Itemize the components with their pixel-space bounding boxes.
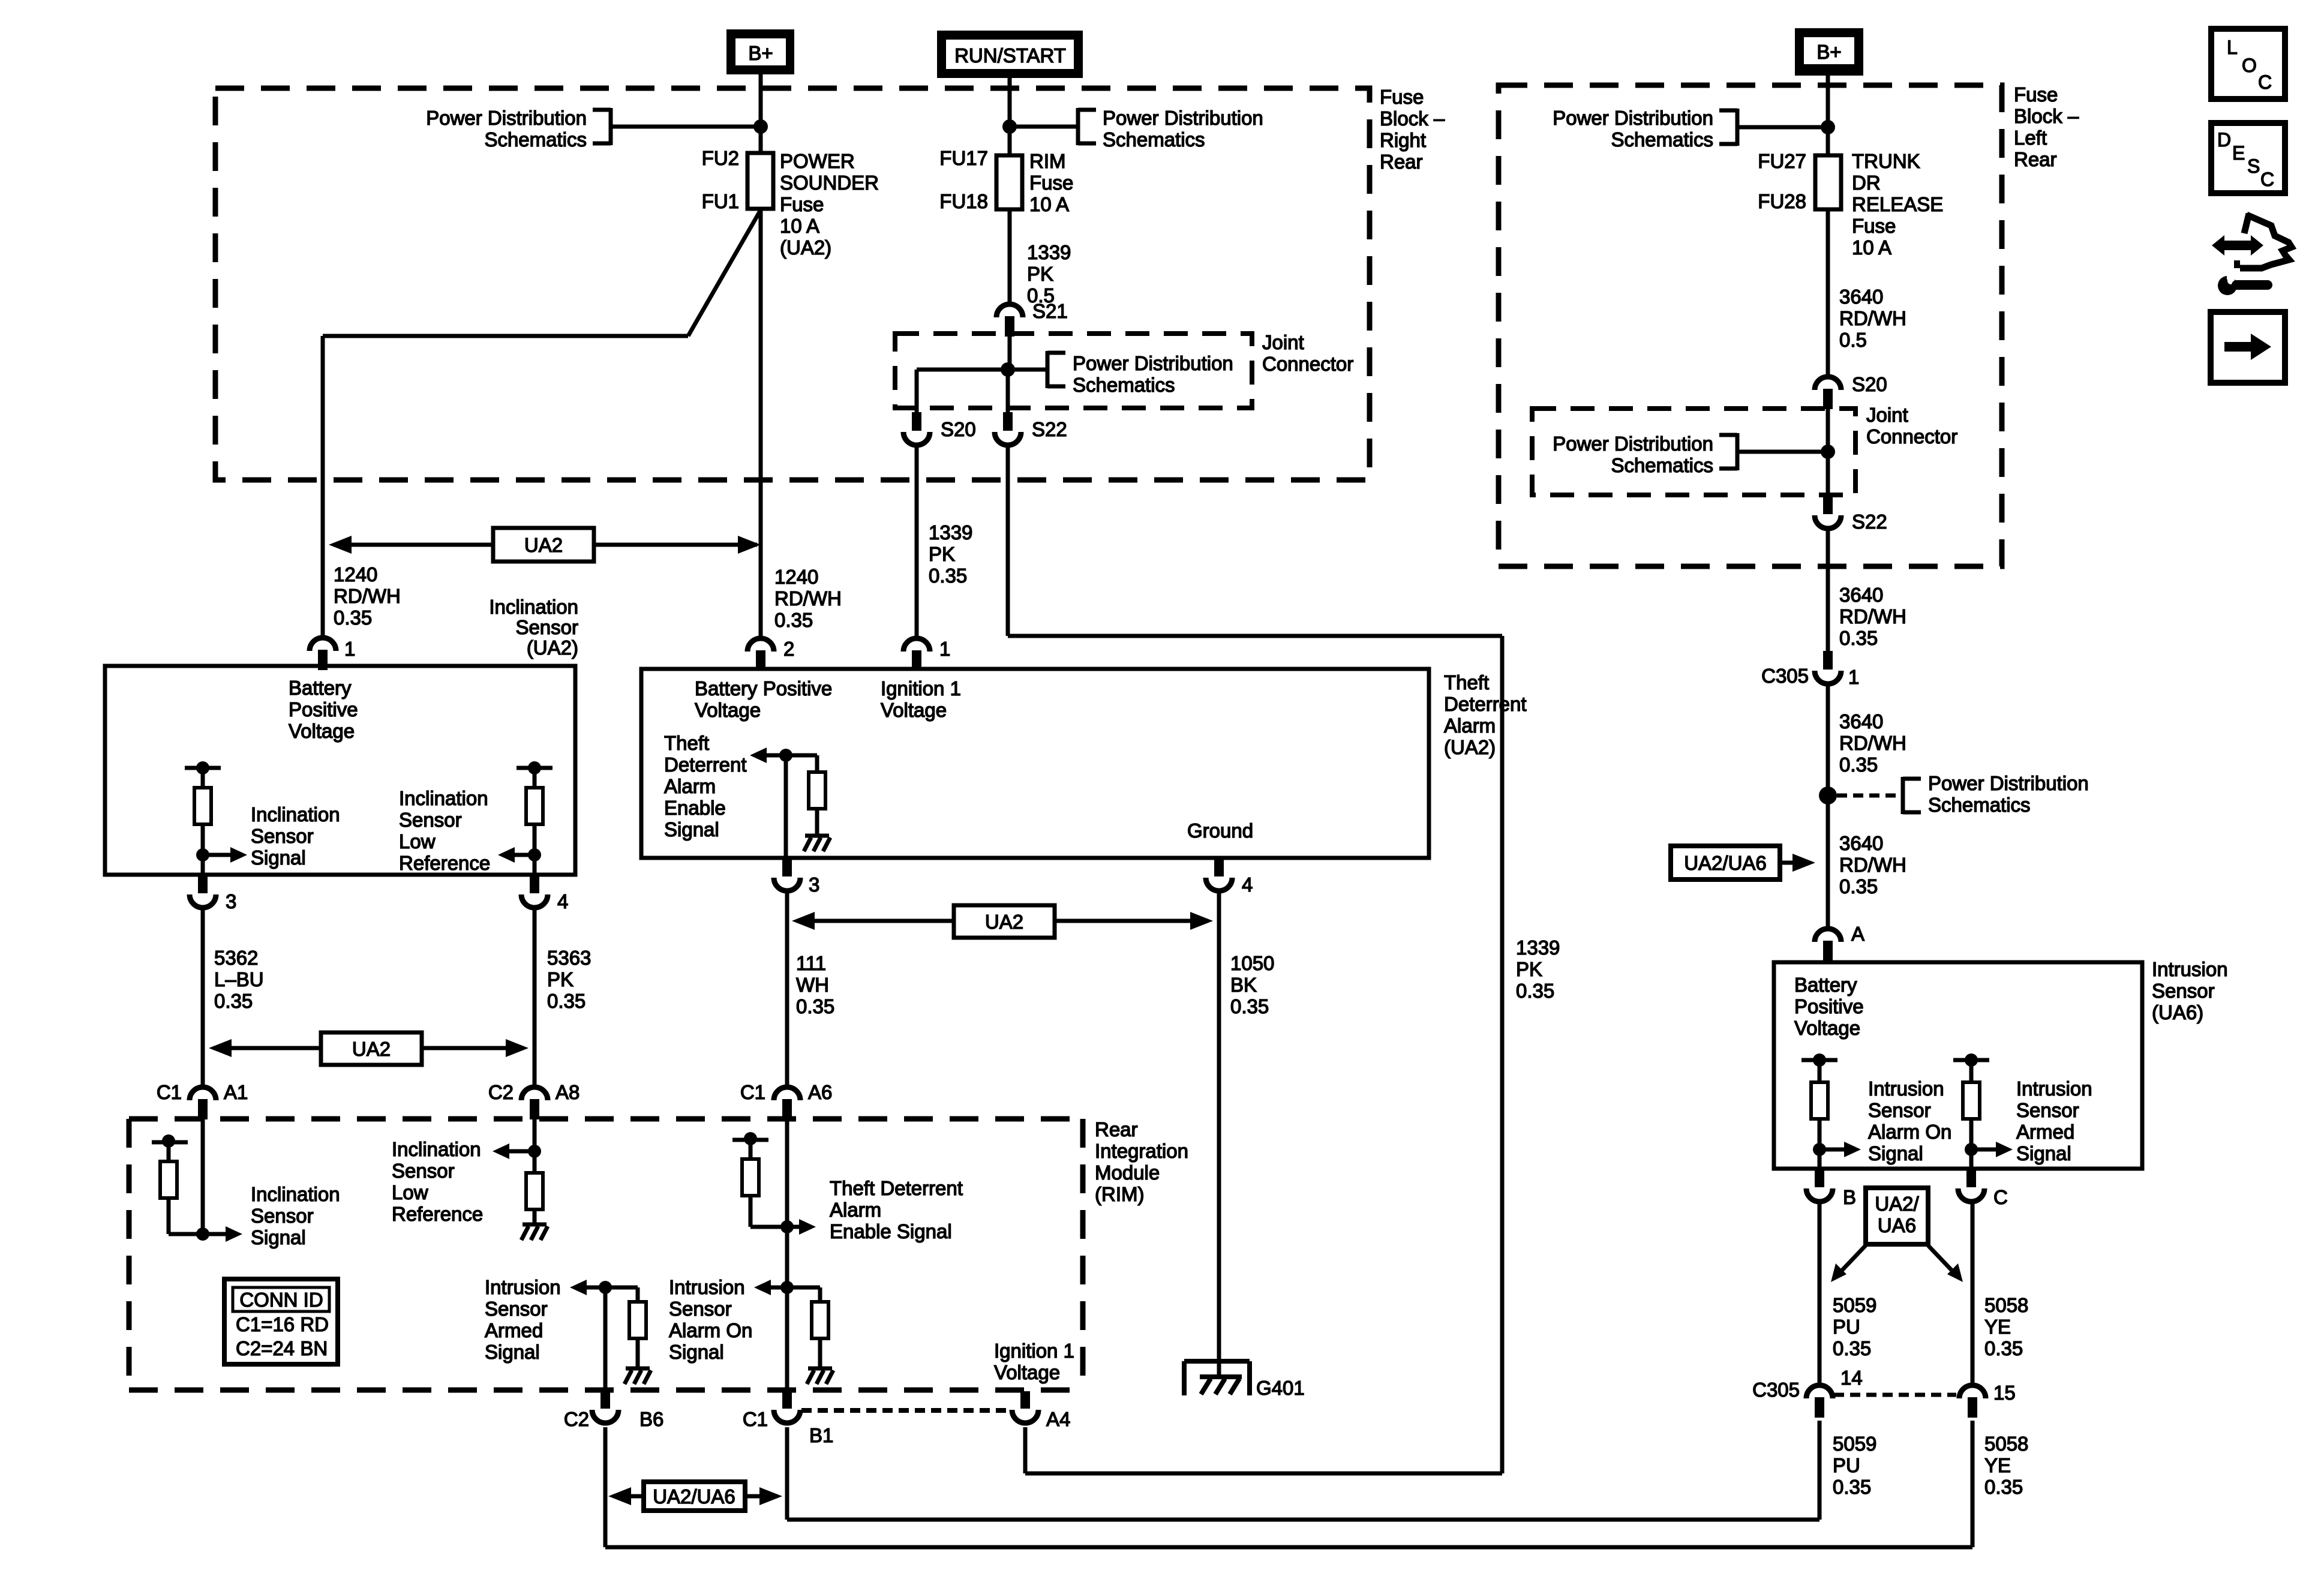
svg-text:YE: YE: [1984, 1316, 2011, 1338]
label FU27: [1758, 150, 1806, 172]
svg-text:Signal: Signal: [2016, 1142, 2071, 1164]
svg-text:YE: YE: [1984, 1454, 2011, 1476]
wire B6 to intrusion sensor C: [605, 1421, 1972, 1547]
svg-text:Ground: Ground: [1187, 819, 1253, 842]
fuse block - left rear dashed box: [1499, 85, 2002, 566]
pin 3 connector (inclination sensor): [190, 875, 216, 908]
label FU1: [702, 190, 739, 212]
label B: [1843, 1186, 1856, 1208]
svg-text:RIM: RIM: [1029, 150, 1066, 172]
arrow intrusion sensor alarm on (sensor): [1819, 1142, 1861, 1157]
arrow inclination sensor low reference: [498, 847, 535, 863]
fuse FU17/FU18 RIM: [996, 155, 1022, 209]
wire S20 into joint connector (right): [1826, 409, 1830, 496]
svg-text:FU17: FU17: [939, 147, 988, 169]
label S20 (right): [1852, 373, 1887, 395]
svg-text:B1: B1: [809, 1424, 833, 1446]
svg-text:B6: B6: [639, 1408, 663, 1430]
harness label UA2/UA6 (below intrusion sensor): [1831, 1188, 1963, 1282]
wire C305 to splice S313: [1826, 684, 1830, 787]
label pin 1 (C305): [1848, 666, 1859, 688]
ground (intrusion armed): [624, 1368, 651, 1384]
label pin 4 (theft): [1242, 873, 1253, 896]
label Joint Connector (right): [1866, 404, 1957, 448]
pin 3 connector (theft deterrent): [774, 858, 800, 891]
svg-text:1: 1: [939, 638, 950, 660]
wire fuse FU18 to splice S21: [1008, 209, 1012, 303]
svg-text:(UA6): (UA6): [2152, 1001, 2203, 1023]
label 5058 YE 0.35 (lower): [1984, 1433, 2028, 1498]
svg-text:5059: 5059: [1833, 1433, 1876, 1455]
wire junction down to S22: [1006, 370, 1010, 413]
svg-text:5362: 5362: [214, 947, 258, 969]
svg-text:0.35: 0.35: [1984, 1337, 2023, 1359]
label C305 (14/15): [1752, 1379, 1800, 1401]
svg-text:C305: C305: [1752, 1379, 1800, 1401]
label Rear Integration Module (RIM): [1095, 1118, 1188, 1205]
svg-text:TRUNK: TRUNK: [1852, 150, 1920, 172]
label 14: [1840, 1367, 1863, 1389]
svg-text:Right: Right: [1380, 129, 1426, 151]
label C305 (pin 1): [1761, 665, 1809, 687]
svg-text:1240: 1240: [334, 563, 377, 586]
svg-text:B+: B+: [1816, 41, 1841, 63]
joint connector dashed box (right): [1532, 409, 1855, 495]
svg-text:Block –: Block –: [2014, 105, 2079, 127]
svg-text:UA2/: UA2/: [1875, 1193, 1919, 1215]
svg-text:Signal: Signal: [251, 846, 306, 869]
svg-text:Sensor: Sensor: [251, 825, 314, 847]
wire theft enable to pin 3: [784, 755, 788, 858]
arrow inclination sensor low reference (RIM): [493, 1143, 535, 1159]
fuse block - right rear dashed box: [215, 88, 1370, 480]
svg-text:0.35: 0.35: [929, 565, 967, 587]
svg-text:Sensor: Sensor: [515, 616, 578, 638]
svg-text:(UA2): (UA2): [1444, 736, 1496, 758]
svg-text:DR: DR: [1852, 172, 1881, 194]
svg-text:Sensor: Sensor: [2152, 980, 2215, 1002]
svg-text:C1: C1: [740, 1081, 765, 1103]
label C2 (A8): [488, 1081, 514, 1103]
joint connector dashed box (left): [895, 334, 1252, 408]
svg-text:Intrusion: Intrusion: [2152, 958, 2228, 980]
wire A1 into RIM: [201, 1119, 205, 1234]
svg-text:Integration: Integration: [1095, 1140, 1188, 1162]
label 3640 RD/WH 0.35 (above C305): [1839, 584, 1906, 649]
connector C1 A1: [190, 1087, 216, 1119]
svg-text:Reference: Reference: [399, 852, 490, 874]
label C1 (A6): [740, 1081, 765, 1103]
svg-text:RUN/START: RUN/START: [954, 44, 1066, 67]
connector C1 B1: [774, 1390, 800, 1423]
svg-text:15: 15: [1993, 1382, 2016, 1404]
svg-text:PK: PK: [547, 968, 574, 990]
svg-text:111: 111: [796, 952, 826, 974]
wire pin 3 to C1 A1: [201, 908, 205, 1086]
svg-text:PK: PK: [1027, 263, 1053, 285]
connector B (intrusion sensor): [1806, 1169, 1833, 1202]
svg-text:3640: 3640: [1839, 286, 1883, 308]
label Ground: [1187, 819, 1253, 842]
svg-text:Power Distribution: Power Distribution: [1553, 107, 1713, 129]
svg-text:Signal: Signal: [251, 1226, 306, 1248]
label FU28: [1758, 190, 1806, 212]
svg-text:BK: BK: [1230, 974, 1257, 996]
svg-text:FU1: FU1: [702, 190, 739, 212]
pin 4 connector (theft deterrent): [1206, 858, 1232, 891]
svg-text:1: 1: [344, 638, 355, 660]
svg-text:4: 4: [557, 890, 568, 912]
theft deterrent alarm module box: [641, 669, 1429, 858]
label 5059 PU 0.35 (lower): [1833, 1433, 1876, 1498]
svg-text:Sensor: Sensor: [399, 809, 462, 831]
svg-text:3640: 3640: [1839, 832, 1883, 854]
svg-text:Voltage: Voltage: [695, 699, 761, 721]
connector A (intrusion sensor): [1815, 929, 1841, 961]
label A: [1851, 923, 1864, 945]
label 15: [1993, 1382, 2016, 1404]
svg-text:14: 14: [1840, 1367, 1863, 1389]
connector C (intrusion sensor): [1958, 1169, 1984, 1202]
svg-text:0.35: 0.35: [1833, 1476, 1871, 1498]
svg-text:C: C: [2258, 71, 2272, 93]
svg-text:C2: C2: [488, 1081, 514, 1103]
wire down to inclination sensor pin 1: [321, 336, 325, 638]
callout power distribution schematics (top middle): [1010, 107, 1263, 151]
svg-text:Signal: Signal: [1868, 1142, 1923, 1164]
label FU2: [702, 147, 739, 169]
svg-text:0.35: 0.35: [214, 990, 253, 1012]
wire B1 to intrusion sensor B: [787, 1421, 1819, 1520]
svg-text:C: C: [1993, 1186, 2008, 1208]
svg-text:WH: WH: [796, 974, 829, 996]
svg-text:Fuse: Fuse: [1380, 86, 1424, 108]
svg-text:FU2: FU2: [702, 147, 739, 169]
resistor (theft enable pull): [786, 755, 825, 834]
svg-text:S20: S20: [1852, 373, 1887, 395]
junction intrusion armed (sensor): [1965, 1143, 1978, 1156]
connector C2 B6: [592, 1390, 618, 1423]
svg-text:S21: S21: [1032, 300, 1068, 322]
svg-text:0.35: 0.35: [1839, 627, 1878, 649]
label Theft Deterrent Alarm (UA2): [1444, 671, 1527, 758]
label S22 (left): [1032, 418, 1067, 440]
label Battery Positive Voltage (theft): [695, 677, 832, 721]
connector C305 pin 14: [1806, 1385, 1833, 1418]
svg-text:Signal: Signal: [669, 1341, 724, 1363]
svg-text:4: 4: [1242, 873, 1253, 896]
ground (theft enable): [804, 836, 830, 851]
svg-text:0.35: 0.35: [1984, 1476, 2023, 1498]
junction intrusion alarm on (sensor): [1813, 1143, 1826, 1156]
callout power distribution schematics (S313): [1837, 772, 2089, 816]
label Intrusion Sensor Alarm On Signal (sensor): [1868, 1077, 1951, 1164]
connector link C1 to A4 (dashed): [801, 1408, 1011, 1413]
label 1339 PK 0.35 (ignition loop): [1516, 936, 1560, 1002]
svg-text:Schematics: Schematics: [1611, 128, 1713, 151]
label A8: [556, 1081, 580, 1103]
svg-text:Reference: Reference: [392, 1203, 483, 1225]
label Inclination Sensor Signal (RIM): [251, 1183, 340, 1248]
svg-text:3: 3: [809, 873, 819, 896]
svg-text:PK: PK: [929, 543, 955, 565]
label C: [1993, 1186, 2008, 1208]
svg-text:UA2: UA2: [985, 911, 1023, 933]
wire B down to C305 pin 14: [1818, 1203, 1822, 1384]
junction theft enable (RIM): [780, 1220, 794, 1233]
icon DESC box: [2211, 123, 2285, 193]
svg-text:Fuse: Fuse: [1029, 172, 1073, 194]
svg-text:0.35: 0.35: [1833, 1337, 1871, 1359]
resistor (intrusion armed): [605, 1287, 646, 1367]
svg-text:FU27: FU27: [1758, 150, 1806, 172]
svg-text:5058: 5058: [1984, 1294, 2028, 1316]
label 1240 RD/WH 0.35 (left): [334, 563, 401, 629]
wire armed junction to B6: [603, 1287, 608, 1390]
svg-text:0.35: 0.35: [1839, 875, 1878, 897]
svg-text:C1: C1: [743, 1408, 768, 1430]
label A6: [808, 1081, 832, 1103]
resistor (intrusion alarm on, sensor side): [1801, 1053, 1837, 1169]
label pin 3: [226, 890, 236, 912]
callout power distribution schematics (top right): [1553, 107, 1828, 151]
label pin 2: [783, 638, 794, 660]
junction theft enable: [779, 749, 792, 762]
svg-text:Theft: Theft: [1444, 671, 1489, 694]
svg-text:Armed: Armed: [485, 1319, 543, 1341]
label S20 (left): [941, 418, 976, 440]
icon forward arrow box: [2211, 312, 2285, 383]
svg-text:5058: 5058: [1984, 1433, 2028, 1455]
callout power distribution schematics (joint connector left): [1008, 351, 1233, 396]
junction node on RUN/START feed: [1002, 119, 1017, 134]
svg-text:0.35: 0.35: [1839, 754, 1878, 776]
label 5058 YE 0.35 (upper): [1984, 1294, 2028, 1359]
svg-text:E: E: [2232, 142, 2245, 164]
svg-text:RD/WH: RD/WH: [774, 587, 842, 610]
label 5363 PK 0.35: [547, 947, 591, 1012]
arrow theft deterrent alarm enable (RIM): [787, 1219, 816, 1235]
svg-text:Intrusion: Intrusion: [669, 1276, 745, 1298]
svg-text:3: 3: [226, 890, 236, 912]
resistor (intrusion alarm on): [787, 1287, 828, 1367]
svg-text:PK: PK: [1516, 958, 1542, 980]
arrow intrusion sensor armed (sensor): [1971, 1142, 2013, 1157]
label S21: [1032, 300, 1068, 322]
svg-text:Rear: Rear: [1380, 151, 1423, 173]
wire S22 to C305 pin 1: [1826, 529, 1830, 651]
label Inclination Sensor Low Reference (RIM): [392, 1138, 483, 1225]
label pin 1: [344, 638, 355, 660]
svg-text:UA2/UA6: UA2/UA6: [1684, 852, 1767, 874]
svg-text:RD/WH: RD/WH: [1839, 307, 1906, 329]
label 1240 RD/WH 0.35 (right): [774, 566, 842, 631]
label G401: [1256, 1377, 1305, 1399]
label Intrusion Sensor (UA6): [2152, 958, 2228, 1023]
harness label UA2/UA6 (right mid): [1671, 846, 1815, 879]
junction inclination low reference: [528, 848, 541, 861]
resistor (inclination low ref pull-up): [517, 761, 553, 875]
svg-text:Voltage: Voltage: [881, 699, 947, 721]
svg-text:5059: 5059: [1833, 1294, 1876, 1316]
inclination sensor module box: [105, 666, 575, 875]
svg-text:C1: C1: [157, 1081, 182, 1103]
svg-text:Positive: Positive: [289, 698, 358, 721]
junction RIM inclination signal: [196, 1227, 209, 1241]
wire diagonal from fuse FU1: [688, 210, 761, 336]
splice S21: [996, 304, 1023, 337]
svg-text:Signal: Signal: [664, 818, 719, 840]
connector C305 pin 1: [1815, 651, 1841, 684]
svg-text:FU28: FU28: [1758, 190, 1806, 212]
svg-text:B: B: [1843, 1186, 1856, 1208]
wire pin 4 to C2 A8: [533, 908, 537, 1086]
svg-text:Alarm On: Alarm On: [669, 1319, 752, 1341]
svg-text:Inclination: Inclination: [399, 787, 488, 809]
svg-text:0.35: 0.35: [1230, 995, 1269, 1017]
wire pin 4 to ground G401: [1217, 891, 1221, 1377]
svg-text:Connector: Connector: [1262, 353, 1353, 375]
svg-text:UA6: UA6: [1878, 1214, 1916, 1236]
svg-text:1339: 1339: [929, 521, 972, 544]
label A4: [1046, 1408, 1070, 1430]
label 1050 BK 0.35: [1230, 952, 1274, 1017]
wire A8 into RIM: [533, 1119, 537, 1151]
svg-text:Alarm On: Alarm On: [1868, 1121, 1951, 1143]
wire C (C305 15) down to corner: [1971, 1421, 1975, 1547]
svg-text:Intrusion: Intrusion: [2016, 1077, 2092, 1100]
wire alarm-on junction to B1: [785, 1287, 789, 1390]
callout power distribution schematics (joint connector right): [1553, 433, 1828, 476]
svg-text:POWER: POWER: [780, 150, 855, 172]
svg-text:Ignition 1: Ignition 1: [881, 677, 961, 700]
splice S22 (right): [1815, 496, 1841, 529]
svg-text:1339: 1339: [1027, 241, 1071, 263]
wire S21 into joint connector: [1008, 337, 1012, 370]
svg-text:Battery: Battery: [289, 677, 352, 699]
svg-text:Alarm: Alarm: [1444, 715, 1496, 737]
junction node on right B+ feed: [1821, 120, 1835, 134]
label S22 (right): [1852, 511, 1887, 533]
svg-text:S20: S20: [941, 418, 976, 440]
wire S22 down then right (ignition 1 loop): [1008, 444, 1502, 1473]
svg-text:PU: PU: [1833, 1454, 1860, 1476]
wire fuse FU1 down to pin 2: [759, 209, 763, 638]
power symbol B+ (left, fuse block right rear): [726, 29, 794, 74]
svg-text:0.35: 0.35: [1516, 980, 1554, 1002]
wire pin 3 to C1 A6: [785, 891, 789, 1086]
power symbol B+ (right, fuse block left rear): [1795, 28, 1863, 76]
svg-text:UA2: UA2: [352, 1038, 391, 1060]
svg-text:UA2: UA2: [524, 534, 563, 556]
svg-text:S: S: [2247, 155, 2260, 177]
label Intrusion Sensor Alarm On Signal (RIM): [669, 1276, 752, 1363]
svg-text:L–BU: L–BU: [214, 968, 264, 990]
arrow inclination sensor signal (RIM): [203, 1226, 242, 1242]
label B6: [639, 1408, 663, 1430]
svg-text:Low: Low: [399, 830, 436, 852]
connector C1 A6: [774, 1087, 800, 1119]
svg-text:Voltage: Voltage: [289, 720, 355, 742]
svg-text:Deterrent: Deterrent: [1444, 693, 1527, 715]
svg-text:A4: A4: [1046, 1408, 1070, 1430]
label RIM Fuse 10 A: [1029, 150, 1073, 215]
junction intrusion armed: [599, 1281, 612, 1294]
svg-text:Low: Low: [392, 1181, 428, 1203]
label Fuse Block - Left Rear: [2014, 83, 2079, 170]
label Ignition 1 Voltage (theft): [881, 677, 961, 721]
svg-text:Module: Module: [1095, 1161, 1160, 1184]
wire horizontal to inclination sensor feed: [323, 334, 688, 338]
CONN ID table: [224, 1279, 338, 1364]
svg-text:Schematics: Schematics: [1073, 374, 1175, 396]
ground (intrusion alarm on): [807, 1368, 833, 1384]
svg-text:Theft: Theft: [664, 732, 709, 754]
svg-text:RD/WH: RD/WH: [1839, 605, 1906, 628]
label FU17: [939, 147, 988, 169]
svg-text:SOUNDER: SOUNDER: [780, 172, 879, 194]
label Joint Connector (left): [1262, 331, 1353, 375]
label A1: [224, 1081, 248, 1103]
svg-text:0.35: 0.35: [774, 609, 813, 631]
svg-text:Enable Signal: Enable Signal: [830, 1220, 952, 1242]
pin 4 connector (inclination sensor): [521, 875, 548, 908]
svg-text:0.35: 0.35: [334, 607, 372, 629]
svg-text:Inclination: Inclination: [489, 596, 578, 618]
label POWER SOUNDER Fuse 10 A (UA2): [780, 150, 879, 259]
svg-text:Power Distribution: Power Distribution: [1073, 352, 1233, 374]
intrusion sensor module box: [1774, 962, 2142, 1169]
resistor (inclination signal, RIM side): [152, 1134, 203, 1234]
wire S313 to intrusion sensor A: [1826, 804, 1830, 929]
svg-text:L: L: [2227, 37, 2238, 58]
svg-text:Fuse: Fuse: [780, 193, 824, 215]
junction node on B+ feed: [753, 119, 768, 134]
callout power distribution schematics (top left): [426, 107, 761, 151]
svg-text:Fuse: Fuse: [2014, 83, 2058, 106]
resistor (theft enable, RIM side): [732, 1132, 787, 1227]
power symbol RUN/START: [937, 31, 1083, 78]
label Ignition 1 Voltage (RIM): [994, 1340, 1074, 1383]
svg-text:Deterrent: Deterrent: [664, 754, 747, 776]
svg-text:Power Distribution: Power Distribution: [426, 107, 587, 129]
svg-text:A6: A6: [808, 1081, 832, 1103]
junction inclination signal: [196, 848, 209, 861]
label Intrusion Sensor Armed Signal (sensor): [2016, 1077, 2092, 1164]
label TRUNK DR RELEASE Fuse 10 A: [1852, 150, 1943, 259]
svg-text:Alarm: Alarm: [830, 1199, 881, 1221]
connector link C305 14 to 15 (dashed): [1834, 1393, 1956, 1397]
pin 2 connector (theft deterrent): [747, 638, 774, 671]
fuse FU27/FU28 TRUNK DR RELEASE: [1815, 155, 1841, 209]
svg-text:C305: C305: [1761, 665, 1809, 687]
label pin 4: [557, 890, 568, 912]
label Theft Deterrent Alarm Enable Signal (inside): [664, 732, 747, 840]
svg-text:RD/WH: RD/WH: [334, 585, 401, 607]
svg-text:FU18: FU18: [939, 190, 988, 212]
splice S20 (right): [1815, 377, 1841, 409]
connector C305 pin 15: [1959, 1385, 1986, 1418]
wire B+ to fuse FU2: [759, 74, 763, 154]
label Fuse Block - Right Rear: [1380, 86, 1445, 173]
svg-text:RELEASE: RELEASE: [1852, 193, 1943, 215]
svg-text:A8: A8: [556, 1081, 580, 1103]
svg-text:B+: B+: [748, 42, 773, 64]
arrow theft deterrent alarm enable: [750, 748, 786, 763]
label B1: [809, 1424, 833, 1446]
svg-text:Connector: Connector: [1866, 425, 1957, 448]
svg-text:Battery: Battery: [1794, 974, 1857, 996]
